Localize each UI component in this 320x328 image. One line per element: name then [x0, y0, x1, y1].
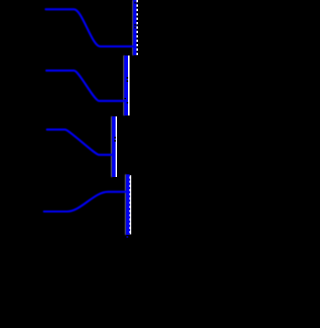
bus segment B (selected vertical wire, second) [124, 56, 128, 116]
bus segment C ghost edge [111, 116, 113, 177]
bus segment D ghost edge [125, 174, 127, 234]
bus segment D (selected vertical wire, bottom) [127, 174, 131, 237]
bus segment C (selected vertical wire, third) [114, 116, 116, 177]
wire W3 (net to bus segment C) [47, 130, 114, 155]
bus segment A (selected vertical wire, top) [134, 0, 137, 55]
wire W2 (net to bus segment B) [46, 71, 127, 101]
bus segment A ghost edge [132, 0, 134, 55]
bus segment B ghost edge [123, 56, 125, 116]
wire W4 (net to bus segment D) [44, 192, 128, 212]
node tip dot [127, 236, 129, 238]
wire W1 (net to bus segment A) [46, 9, 134, 46]
